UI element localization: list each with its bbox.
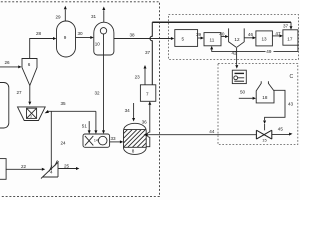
svg-text:40: 40 xyxy=(219,32,225,37)
svg-text:9: 9 xyxy=(64,35,67,40)
svg-text:46: 46 xyxy=(248,32,254,37)
svg-text:39: 39 xyxy=(196,32,202,37)
svg-text:50: 50 xyxy=(240,89,246,94)
svg-text:51: 51 xyxy=(82,123,88,128)
svg-text:25: 25 xyxy=(64,164,70,169)
svg-text:22: 22 xyxy=(21,164,27,169)
svg-text:4: 4 xyxy=(50,170,53,175)
svg-text:15: 15 xyxy=(262,137,267,142)
svg-text:34: 34 xyxy=(125,108,131,113)
svg-text:26: 26 xyxy=(5,60,11,65)
svg-text:18: 18 xyxy=(262,95,268,100)
svg-text:11: 11 xyxy=(210,37,215,42)
svg-text:35: 35 xyxy=(61,101,67,106)
svg-text:49: 49 xyxy=(266,49,272,54)
svg-text:7: 7 xyxy=(146,92,149,97)
svg-text:29: 29 xyxy=(56,15,62,20)
svg-text:38: 38 xyxy=(130,32,136,37)
svg-text:32: 32 xyxy=(95,90,101,95)
svg-text:43: 43 xyxy=(288,101,294,106)
svg-text:28: 28 xyxy=(36,31,42,36)
svg-text:10: 10 xyxy=(95,41,101,46)
svg-text:23: 23 xyxy=(135,74,141,79)
svg-text:31: 31 xyxy=(91,14,97,19)
svg-text:27: 27 xyxy=(17,90,23,95)
svg-text:47: 47 xyxy=(275,31,281,36)
svg-text:24: 24 xyxy=(61,140,67,145)
svg-text:30: 30 xyxy=(78,31,84,36)
svg-text:45: 45 xyxy=(278,126,284,131)
svg-text:17: 17 xyxy=(287,36,293,41)
svg-text:44: 44 xyxy=(209,129,215,134)
svg-text:8: 8 xyxy=(132,148,135,153)
svg-text:37: 37 xyxy=(283,24,289,29)
svg-text:3: 3 xyxy=(30,115,32,119)
svg-text:12: 12 xyxy=(234,37,240,42)
svg-text:5: 5 xyxy=(182,36,185,41)
svg-text:6: 6 xyxy=(28,62,31,67)
svg-text:33: 33 xyxy=(111,136,117,141)
svg-text:C: C xyxy=(290,74,294,80)
svg-text:13: 13 xyxy=(262,37,268,42)
svg-text:42: 42 xyxy=(232,50,238,55)
svg-text:36: 36 xyxy=(142,119,148,124)
svg-text:14: 14 xyxy=(94,139,98,143)
svg-text:37: 37 xyxy=(145,50,151,55)
